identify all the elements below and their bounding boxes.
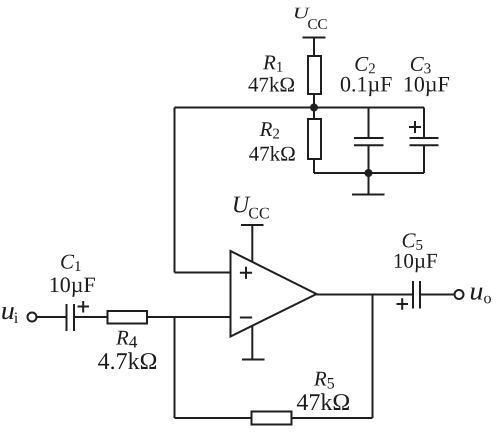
label C1	[61, 255, 80, 271]
resistor R1	[308, 56, 321, 94]
power supply U_CC bar (op-amp)	[241, 225, 264, 263]
label u_o	[471, 288, 483, 300]
wire inverting node down to feedback	[174, 317, 176, 418]
node A junction dot	[310, 104, 318, 112]
wire C5 to output terminal	[421, 294, 454, 296]
label U_CC top subscript	[308, 19, 327, 29]
wire node A to noninverting input	[175, 108, 231, 273]
C3 polarity plus sign	[409, 121, 421, 133]
wire terminal to C1	[38, 316, 66, 318]
C5 polarity plus sign	[397, 298, 409, 310]
wire feedback up to output	[372, 295, 374, 419]
C1 polarity plus sign	[78, 301, 90, 313]
resistor R5	[252, 412, 292, 425]
op-amp plus input marker	[240, 267, 252, 279]
label C2	[355, 57, 375, 73]
label R5	[314, 372, 334, 389]
value 47k ohm R5	[297, 393, 349, 410]
op-amp minus input marker	[240, 317, 252, 319]
label U_CC op-amp	[234, 197, 250, 213]
op-amp negative supply bar	[242, 326, 265, 360]
value 10uF C5	[395, 254, 437, 273]
capacitor C2	[354, 108, 384, 174]
capacitor C1	[67, 304, 75, 331]
label u_o subscript	[484, 296, 491, 304]
value 10uF C1	[51, 277, 95, 296]
label C3	[411, 57, 431, 74]
wire R5 to output branch	[292, 417, 373, 419]
node B junction dot	[365, 169, 373, 177]
capacitor C3	[410, 108, 439, 174]
op-amp U1	[231, 251, 317, 337]
label R1	[263, 56, 283, 72]
value 47k ohm R1	[248, 77, 294, 92]
value 4.7k ohm R4	[98, 352, 156, 369]
wire R2 bottom	[313, 159, 315, 173]
value 47k ohm R2	[249, 146, 295, 161]
wire bottom feedback left	[175, 417, 252, 419]
label u_i	[2, 307, 14, 319]
wire R4 to inverting input	[147, 316, 231, 318]
label R2	[260, 122, 280, 138]
ground	[352, 173, 385, 195]
resistor R2	[308, 119, 321, 159]
label U_CC op-amp subscript	[249, 208, 269, 219]
label C5	[403, 233, 423, 250]
label u_i subscript	[14, 312, 18, 323]
output terminal u_o	[455, 290, 464, 299]
label R4	[116, 331, 137, 348]
resistor R4	[108, 311, 148, 324]
value 0.1uF C2	[341, 77, 392, 96]
wire node A horizontal	[175, 107, 425, 109]
input terminal u_i	[28, 313, 37, 322]
capacitor C5	[413, 281, 420, 309]
value 10uF C3	[405, 77, 449, 96]
wire R1 bottom to node A	[313, 94, 315, 119]
wire bottom node horizontal	[314, 172, 424, 174]
wire op-amp output	[317, 294, 413, 296]
power supply U_CC bar (top)	[303, 38, 326, 57]
wire C1 to R4	[75, 316, 108, 318]
label U_CC top	[295, 8, 310, 19]
